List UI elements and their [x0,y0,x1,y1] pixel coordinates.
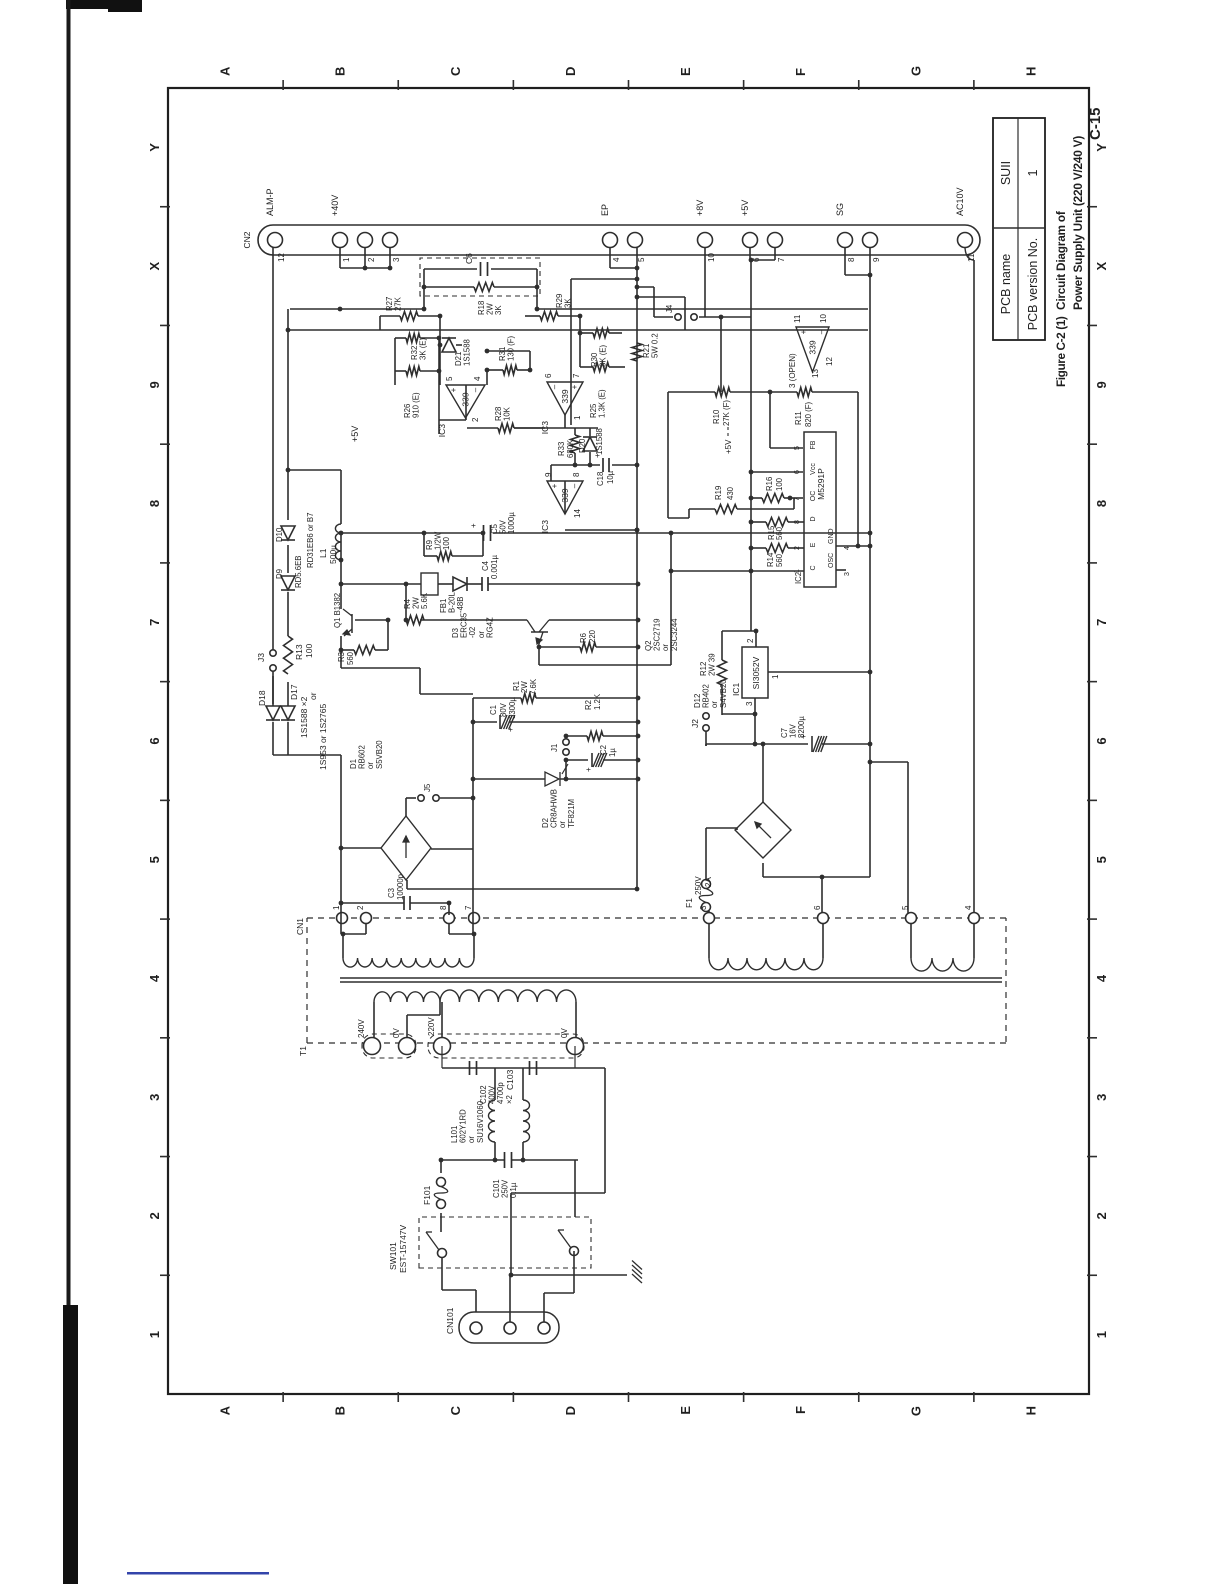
wire filter bus [442,1067,575,1069]
svg-text:J5: J5 [423,783,432,792]
svg-text:D20: D20 [578,438,587,453]
svg-text:2: 2 [147,1212,162,1219]
svg-text:27K (F): 27K (F) [722,400,731,426]
diode D9 [281,576,295,590]
svg-text:80V: 80V [499,702,508,717]
wire Q1 emitter chain [340,636,342,668]
wire comparator top tie [379,316,381,330]
svg-text:1000µ: 1000µ [507,512,516,534]
wire +40V rail (vert) [290,308,424,310]
svg-text:13: 13 [811,369,820,378]
svg-text:–: – [550,384,559,389]
svg-text:8: 8 [1094,500,1109,507]
svg-text:9: 9 [147,381,162,388]
wire R12 loop [722,630,756,632]
capacitor C3 [448,903,450,915]
wire D1 ac2 corner [431,848,473,850]
connector CN2 pin 11 (AC10V) [958,233,973,248]
svg-text:-48B: -48B [456,597,465,613]
resistor R3 [341,649,354,651]
wire +40V branch bus [287,592,289,636]
svg-text:ALM-P: ALM-P [265,188,275,216]
connector CN2 pin 7 [768,233,783,248]
resistor R18 [424,286,474,288]
connector CN101 pins [470,1322,482,1334]
jumper J4 [675,314,681,320]
svg-text:E: E [810,542,817,547]
svg-text:PCB version No.: PCB version No. [1026,238,1040,330]
svg-text:C6: C6 [464,253,474,264]
svg-text:7.6K: 7.6K [529,678,538,695]
svg-text:X: X [1094,261,1109,270]
svg-text:Circuit Diagram of: Circuit Diagram of [1054,211,1068,310]
svg-text:1S1588 ×2: 1S1588 ×2 [299,696,309,738]
svg-text:F101: F101 [422,1185,432,1205]
wire Vcc pin [751,471,803,473]
wire EP bus to comparator mesh [571,278,637,280]
wire SW101 pole2 to CN101 [573,1251,575,1293]
svg-text:2: 2 [471,417,480,422]
wire to SW101 [574,1160,576,1217]
svg-text:8: 8 [572,472,581,477]
resistor R11 [797,388,812,397]
comparator IC3 (a) [446,385,485,418]
svg-text:3: 3 [147,1094,162,1101]
resistor R13 [284,636,293,674]
switch SW101 pole 2 [570,1247,579,1256]
wire CN2 pin 5 EP bus [636,247,638,889]
wire R18/C6 ties [423,269,425,309]
IC1 pin 3 [754,698,756,714]
wire CN2 pins 8,9 SG join [845,274,870,276]
svg-text:S5VB20: S5VB20 [375,740,384,769]
svg-text:–: – [570,483,579,488]
svg-text:SG: SG [835,203,845,216]
svg-text:F1: F1 [684,898,694,908]
svg-text:X: X [147,261,162,270]
svg-text:–: – [471,387,480,392]
wire R11 to GND pin [857,392,859,546]
svg-text:6: 6 [544,373,553,378]
svg-text:H: H [1023,67,1038,76]
resistor R19 [689,508,715,510]
wire +8V staircase from EP bus [635,285,640,290]
svg-text:820 (F): 820 (F) [804,401,813,427]
main output bus [635,528,640,533]
svg-text:F: F [793,1406,808,1414]
capacitor C6 dashed enclosure [420,258,540,296]
resistor R14 [751,547,766,549]
svg-text:10K: 10K [503,406,512,421]
svg-text:1: 1 [342,257,351,262]
svg-text:5: 5 [1094,856,1109,863]
svg-text:GND: GND [828,528,835,544]
svg-text:4: 4 [147,974,162,982]
svg-text:EST-15747V: EST-15747V [398,1224,408,1273]
bridge rectifier D1 [381,816,431,880]
resistor R21 [632,343,642,361]
connector CN2 pin 10 (+8V) [698,233,713,248]
transformer T1 secondary winding b [708,924,710,958]
svg-text:PCB name: PCB name [999,254,1013,314]
fuse F101 [440,1213,442,1222]
svg-text:1: 1 [332,905,341,910]
transformer T1 tap terminals [364,1038,381,1055]
title block table [993,118,1045,340]
wire R32/R26 rails [394,338,396,385]
svg-text:8200µ: 8200µ [797,716,806,738]
svg-text:×2: ×2 [505,1095,514,1104]
svg-text:250V: 250V [694,876,703,895]
svg-text:C4: C4 [481,560,490,571]
svg-text:R16: R16 [765,477,774,491]
svg-text:RD5.6EB: RD5.6EB [294,555,303,588]
resistor R27 [400,312,418,321]
wire D12 bottom [762,863,764,877]
svg-text:or: or [308,692,318,700]
snubber rail [341,583,421,585]
connector CN1 dashed outline [307,917,1006,919]
svg-text:+: + [506,727,515,732]
svg-text:TF821M: TF821M [567,799,576,828]
svg-text:IC3: IC3 [540,520,550,534]
svg-text:E: E [678,67,693,76]
capacitor C103 [529,1061,531,1075]
connector CN2 pin 1 (+40V) [333,233,348,248]
svg-text:7: 7 [1094,619,1109,626]
svg-text:J4: J4 [665,304,674,313]
svg-text:5: 5 [637,257,646,262]
svg-text:680K: 680K [566,439,575,458]
svg-text:RG4Z: RG4Z [485,617,494,638]
svg-text:B: B [333,1406,348,1415]
svg-text:6: 6 [1094,737,1109,744]
svg-text:C: C [810,565,817,570]
svg-text:10: 10 [819,314,828,323]
connector CN2 pin 2 [358,233,373,248]
svg-text:9: 9 [1094,381,1109,388]
svg-text:12: 12 [825,357,834,366]
wire neutral path [604,1068,606,1193]
transistor Q2 [531,631,548,633]
transformer T1 taps [373,1002,375,1038]
transformer T1 secondary winding c [910,924,912,958]
svg-text:3: 3 [844,572,851,576]
connector CN101 outline [459,1312,559,1343]
wire +5V rail [750,260,752,631]
svg-text:OC: OC [810,491,817,502]
svg-text:4: 4 [1094,974,1109,982]
connector CN2 pin 5 [628,233,643,248]
svg-text:R10: R10 [712,409,721,424]
jumper J2 [705,730,707,746]
wire C5 rail top [340,533,342,560]
snubber FB1 box [421,573,438,595]
connector CN2 pin 9 [863,233,878,248]
wire J1 branch [565,760,567,779]
svg-text:6: 6 [794,470,801,474]
svg-text:4: 4 [844,546,851,550]
svg-text:R19: R19 [714,486,723,500]
svg-text:1.3K (E): 1.3K (E) [598,389,607,418]
capacitor C2 [566,759,588,761]
bridge rectifier D12 [735,802,791,858]
wire Q2 emitter loop [538,647,540,665]
wire IC2 C pin [671,570,804,572]
svg-text:SU16V1060: SU16V1060 [476,1100,485,1143]
resistor R31 [503,366,517,375]
svg-text:FB: FB [810,440,817,449]
svg-text:560: 560 [775,553,784,567]
svg-text:C103: C103 [505,1069,515,1090]
connector CN2 pin 4 (EP) [603,233,618,248]
wire IC2 OSC pin [836,569,846,571]
svg-text:2: 2 [794,546,801,550]
svg-text:7: 7 [777,257,786,262]
resistor R33 [571,435,580,453]
svg-text:1: 1 [573,415,582,420]
resistor R29 [540,312,558,321]
svg-text:G: G [908,1406,923,1416]
wire CN1 pins 8,7 join [449,933,474,935]
svg-text:+: + [449,387,458,392]
svg-text:+: + [799,329,808,334]
svg-text:C: C [448,1405,463,1415]
switch SW101 pole 1 [438,1249,447,1258]
wire J4 drop to R10 [720,317,722,392]
svg-text:14: 14 [573,509,582,518]
svg-text:D17: D17 [289,684,299,700]
wire FB sense [769,392,771,448]
resistor R25 [593,363,609,372]
wire C7 bottom to AC rail [868,742,873,747]
wire SG rail [869,260,871,877]
svg-text:8: 8 [439,905,448,910]
svg-text:Figure C-2 (1): Figure C-2 (1) [1054,316,1068,387]
svg-text:8: 8 [794,520,801,524]
svg-text:A: A [218,1405,233,1415]
svg-text:+8V: +8V [695,200,705,216]
IC1 pin 1 [768,671,870,673]
svg-text:+: + [469,523,478,528]
svg-text:SUII: SUII [999,161,1013,185]
wire CN2 pin 10 +8V [704,247,706,317]
svg-text:2: 2 [367,257,376,262]
diode D10 [281,526,295,540]
svg-text:RD31EB6 or B7: RD31EB6 or B7 [306,513,315,568]
connector CN1 pin 7 [469,913,480,924]
svg-text:4: 4 [612,257,621,262]
IC2 M5291P box [804,432,836,587]
svg-text:Vcc: Vcc [810,463,817,475]
resistor R32 [406,334,420,343]
drawing border frame [168,88,1089,1394]
connector CN1 pin 6 [818,913,829,924]
diode D20 [583,437,597,451]
svg-text:4: 4 [964,905,973,910]
svg-text:1: 1 [1026,169,1040,176]
svg-text:8: 8 [847,257,856,262]
jumper J6 [406,797,416,799]
svg-text:0.001µ: 0.001µ [490,554,499,579]
IC1 SI3052V box [742,647,768,698]
wire CN2 pin 11 AC10V [965,248,974,260]
transformer T1 primary winding 2 [440,990,576,1002]
wire AC2 long column [472,698,474,934]
switch SW101 dashed box [419,1217,591,1268]
jumper J1 [563,749,569,755]
inductor L1 [335,524,341,560]
transistor Q1 [351,614,353,633]
svg-text:7: 7 [794,497,801,501]
svg-text:5: 5 [445,376,454,381]
wire D2 cathode to bus [560,778,638,780]
wire L101 to C101 bus [494,1142,496,1160]
transformer T1 dashed outline [362,1034,416,1058]
capacitor C7 [770,743,808,745]
svg-text:IC1: IC1 [731,683,741,697]
wire J2/C7 node [705,744,707,746]
resistor R16 [751,497,762,499]
connector CN2 pin 3 [383,233,398,248]
comparator IC3 (b) [547,382,583,415]
svg-text:130 (F): 130 (F) [507,335,516,361]
connector CN1 pin 4 [969,913,980,924]
svg-text:R11: R11 [794,411,803,425]
svg-text:1: 1 [147,1331,162,1338]
svg-text:D9: D9 [275,569,284,579]
transformer T1 primary winding 1 [374,992,440,1002]
svg-text:+40V: +40V [330,195,340,216]
connector CN1 pin 1 [337,913,348,924]
svg-text:7: 7 [464,905,473,910]
capacitor C4 [481,577,483,591]
svg-text:S4VB20: S4VB20 [719,679,728,708]
svg-text:11: 11 [793,314,802,323]
svg-text:C1: C1 [489,705,498,715]
wire D12 connections [708,911,710,918]
fuse F1 [702,903,711,912]
svg-text:2A: 2A [704,877,713,887]
wire snubber to base [405,584,407,620]
svg-text:D: D [563,1406,578,1415]
svg-text:J2: J2 [690,719,700,728]
svg-text:R3: R3 [337,652,346,662]
wire T1 0V to CN1 dashed join [574,1046,576,1068]
svg-text:R13: R13 [294,644,304,660]
thyristor D2 [545,772,559,786]
wire chain to AC column [273,754,341,756]
svg-text:+5V: +5V [724,439,733,454]
wire L1 to +40V bus [288,469,341,471]
connector CN2 pin 6 (+5V) [743,233,758,248]
svg-text:SW101: SW101 [388,1242,398,1270]
svg-text:1S1588: 1S1588 [463,339,472,366]
svg-text:3K: 3K [494,305,503,315]
svg-text:240V: 240V [357,1019,366,1038]
jumper J3 [270,665,276,671]
wire D1 dc+ corner to jumper [405,798,407,816]
wire CN2 pin 4 stub [609,247,611,268]
svg-text:+: + [584,767,593,772]
svg-text:5: 5 [901,905,910,910]
svg-text:3: 3 [699,905,708,910]
capacitor C102 [469,1061,471,1075]
capacitor C1 [473,721,497,723]
svg-text:+: + [593,453,602,458]
svg-text:AC10V: AC10V [955,187,965,216]
svg-text:J1: J1 [550,744,559,752]
wire earth branch [511,1274,627,1276]
diode D21 [442,338,456,352]
svg-text:G: G [908,66,923,76]
resistor R28 [498,424,514,433]
svg-text:910 (E): 910 (E) [412,392,421,418]
svg-text:560: 560 [346,651,355,665]
svg-text:1S953 or 1S2765: 1S953 or 1S2765 [318,704,328,770]
svg-text:CN101: CN101 [445,1307,455,1334]
svg-text:E: E [678,1406,693,1415]
svg-text:M5291P: M5291P [816,468,826,500]
transformer T1 core [340,981,1002,983]
scan artifact: left edge black line [67,0,71,1305]
resistor R2 [566,735,587,737]
resistor R12 body [721,685,723,715]
svg-text:4: 4 [473,376,482,381]
svg-text:1.2K: 1.2K [593,693,602,710]
resistor R9 [423,533,425,556]
resistor R30 [593,329,609,338]
ground symbol [632,1274,642,1283]
wire Q2 collector to bus [549,619,638,621]
svg-text:C18: C18 [596,472,605,486]
svg-text:7: 7 [147,619,162,626]
svg-text:D: D [563,67,578,76]
svg-text:5: 5 [147,856,162,863]
wire diode join [272,740,274,755]
wire R19 to OC [793,498,795,509]
svg-text:0V: 0V [392,1028,401,1038]
svg-text:8: 8 [147,500,162,507]
connector CN2 pin 8 (SG) [838,233,853,248]
svg-text:–: – [817,329,826,334]
svg-text:220: 220 [588,629,597,643]
capacitor C5 [483,525,485,541]
inductor L101 winding a [494,1068,496,1100]
svg-text:2: 2 [356,905,365,910]
svg-text:0V: 0V [560,1028,569,1038]
svg-text:B: B [333,67,348,76]
svg-text:220V: 220V [427,1017,436,1036]
resistor R4 [406,616,424,625]
svg-text:R14: R14 [766,552,775,567]
wire J4 to +5V side [699,316,751,318]
svg-text:12: 12 [277,253,286,262]
wire AC10V rail [973,260,975,918]
svg-text:L1: L1 [318,548,328,558]
svg-text:3300µ: 3300µ [508,697,517,719]
resistor R15 [751,521,766,523]
resistor R10 [668,391,715,393]
connector CN1 pin 3 [704,913,715,924]
svg-text:3: 3 [1094,1094,1109,1101]
svg-text:2: 2 [746,638,755,643]
wire CN2 pins 1-3 join (+40V) [340,267,390,269]
svg-text:500µ: 500µ [328,545,338,564]
svg-text:5W 0.2: 5W 0.2 [651,333,660,358]
svg-text:+: + [550,483,559,488]
svg-text:D: D [810,516,817,521]
